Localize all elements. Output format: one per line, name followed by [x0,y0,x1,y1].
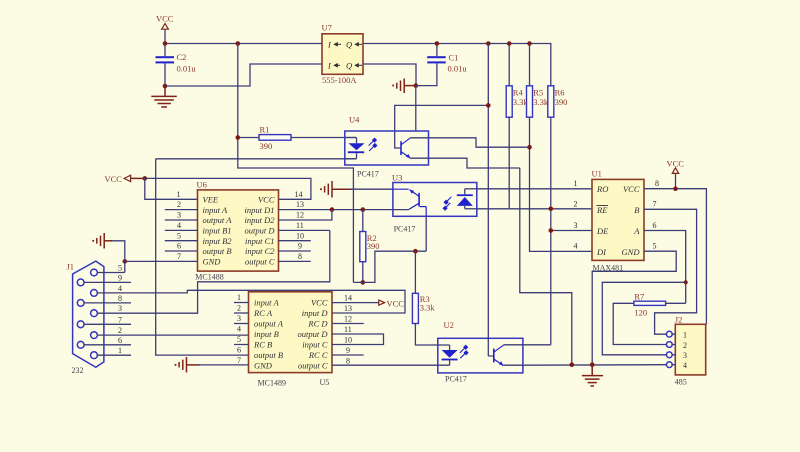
svg-text:12: 12 [296,211,304,220]
node rail-U2base column [486,41,491,46]
wire U6 pin11 stub joining riser [279,229,330,231]
svg-text:4: 4 [177,221,181,230]
node R5/U4-collector junction [527,145,532,150]
pin numbers U5 right [344,294,352,366]
svg-text:B: B [634,205,639,215]
wire U1 pin5 GND loop to bottom ground [592,251,676,365]
light arrows U3 [443,197,451,210]
svg-text:input D: input D [302,308,329,318]
node rail-C1 junction [435,41,440,46]
svg-text:RO: RO [596,184,608,194]
wire column x238: rail to R1 to corner right [238,44,354,283]
svg-text:input A: input A [203,205,228,215]
svg-text:2: 2 [118,326,122,335]
svg-text:7: 7 [118,315,122,324]
svg-text:7: 7 [177,252,181,261]
svg-text:input C1: input C1 [245,236,275,246]
svg-text:4: 4 [118,284,122,293]
wire U3 to U1 RE line [477,208,592,210]
svg-text:6: 6 [237,346,241,355]
phototransistor inside U2 [488,345,503,365]
svg-text:232: 232 [72,366,84,375]
ic U6 MC1488 [195,180,278,282]
node pin13/pin12 junction [330,207,335,212]
wire U1 pin7 B to J2 pin1 [644,209,697,334]
svg-text:6: 6 [118,336,122,345]
svg-text:output D: output D [298,329,329,339]
svg-text:3: 3 [118,304,122,313]
svg-text:input A: input A [254,298,279,308]
wire U6 pin8 stub [279,260,311,262]
wire U5 pin8 to U2 LED cathode [332,364,438,366]
svg-text:U2: U2 [444,320,454,330]
svg-text:9: 9 [346,346,350,355]
svg-text:2: 2 [177,200,181,209]
svg-text:8: 8 [118,294,122,303]
svg-text:5: 5 [118,264,122,273]
resistor R2 [360,210,380,283]
wire U7 Q- out right then down [363,64,416,86]
wire x520 column down to gnd rail [520,168,572,365]
ic U1 MAX481 [592,169,645,273]
svg-text:3: 3 [177,211,181,220]
svg-text:MC1489: MC1489 [258,379,286,388]
wire J1 pin4 to U5 pin13 hook [97,290,405,313]
wire R7 right [666,302,686,304]
capacitor C2 [156,52,197,74]
svg-text:4: 4 [574,242,578,251]
svg-text:6: 6 [653,221,657,230]
ic U5 MC1489 [249,292,333,388]
ground (bottom right) [582,365,603,386]
wire J1 pin5 stub [97,272,124,274]
J1 pin circles right column (5,4,3,2,1) [91,269,98,359]
optocoupler U2 PC417 [438,320,523,384]
svg-text:DI: DI [596,247,607,257]
svg-text:VCC: VCC [623,184,640,194]
connector J2 485 [675,315,706,387]
svg-text:13: 13 [296,200,304,209]
svg-text:1: 1 [118,346,122,355]
svg-text:DE: DE [596,226,609,236]
svg-text:1: 1 [574,179,578,188]
node rail-VCC junction [163,41,168,46]
svg-text:PC417: PC417 [445,375,467,384]
wire U1 pin6 A down to R7 right [644,231,686,304]
svg-text:C2: C2 [177,52,187,62]
wire C2 bottom to node [164,63,166,86]
svg-text:R4: R4 [513,88,524,98]
resistor R7 [634,292,666,318]
svg-text:output B: output B [254,350,283,360]
svg-text:9: 9 [298,242,302,251]
svg-text:6: 6 [177,242,181,251]
resistor R3 [412,251,437,345]
svg-text:input D2: input D2 [245,215,276,225]
ground (sideways) at 555 [392,79,416,94]
svg-text:390: 390 [367,241,380,251]
svg-text:5: 5 [653,242,657,251]
svg-text:GND: GND [203,257,222,267]
svg-text:output C: output C [245,257,275,267]
svg-text:J1: J1 [67,262,75,272]
wire R1 left to column [238,137,259,139]
svg-text:10: 10 [296,231,304,240]
wire U5 GND pin7 to ground [198,364,249,366]
svg-text:9: 9 [118,274,122,283]
node DI/R3 junction [413,249,418,254]
wire U3 to U1 RO line [477,188,592,190]
wire J1 pin3 to riser [97,230,329,313]
light arrows U4 [369,138,377,151]
wire J1 pin2 to U5 pin4 [97,334,248,336]
svg-text:R1: R1 [260,125,270,135]
svg-text:A: A [633,226,640,236]
phototransistor inside U3 (left) [393,189,426,216]
wire U5 pin11-pin10 hook [332,334,384,345]
svg-text:input B: input B [254,329,279,339]
wire U6 pin12 riser [279,210,332,220]
svg-text:RC C: RC C [308,350,328,360]
svg-text:10: 10 [344,336,352,345]
svg-text:8: 8 [346,357,350,366]
wire J1 pin6 stub [84,344,131,346]
svg-text:input B1: input B1 [203,226,232,236]
svg-text:8: 8 [298,252,302,261]
svg-text:4: 4 [237,325,241,334]
wire J1 pin1 stub [97,354,131,356]
svg-text:1: 1 [177,190,181,199]
svg-text:3: 3 [683,351,687,360]
svg-text:R7: R7 [634,292,644,302]
wire x156 column down to U5 pin6 [156,159,249,355]
wire U2 collector to R6 column [503,344,550,346]
svg-text:2: 2 [237,304,241,313]
LED inside U4 [345,138,357,144]
svg-text:VCC: VCC [156,14,174,24]
wire C1 bottom to node [416,63,437,85]
wire U2-base column from rail [487,44,489,357]
svg-text:14: 14 [295,190,303,199]
optocoupler U4 PC417 [345,115,429,179]
wire R4 bottom column to RE line [508,117,510,209]
wire R2 bottom rung to DI riser [353,251,426,282]
svg-text:7: 7 [653,200,657,209]
node gnd rail / x520 branch [570,362,575,367]
wire U7 Q+ to top rail right [363,44,551,87]
svg-text:1: 1 [683,330,687,339]
wire Q-net drop onto U4 box top [415,86,417,131]
svg-text:U4: U4 [349,115,360,125]
svg-text:RC B: RC B [253,340,272,350]
svg-text:13: 13 [344,304,352,313]
wire U5 pin1 stub [234,302,249,304]
wire R1 right to U4 LED anode [291,137,357,139]
optocoupler U3 PC417 [392,173,477,234]
svg-text:11: 11 [296,221,304,230]
svg-text:5: 5 [237,335,241,344]
node column/U4-base junction [486,103,491,108]
node A branch junction [684,280,688,284]
svg-text:RC A: RC A [253,308,273,318]
wire J1 pin8 stub [84,302,131,304]
svg-text:3.3k: 3.3k [533,97,549,107]
node R2 bottom junction [361,280,366,285]
node Q-/C1/gnd junction [414,83,419,88]
wire U6 pin3 stub [165,219,198,221]
wire DE stub U1 [551,230,592,232]
svg-text:output B: output B [203,246,232,256]
ground (sideways) at U6 pin14 area [320,181,352,198]
node R1 column junction [236,135,241,140]
wire U2 emitter / ground rail to J2 pin4 [503,364,666,367]
wire U6 pin9 stub [279,250,311,252]
svg-text:11: 11 [344,325,352,334]
node rail-R1 column junction [236,41,241,46]
power VCC (left, at U6) [105,174,145,184]
svg-text:RC D: RC D [307,319,328,329]
wire U1 pin8 VCC to J2 corner [644,189,706,325]
svg-text:555-100A: 555-100A [322,75,357,85]
wire C2 node right then up to U7 pin I- lower [165,64,322,86]
wire U5 pin2 stub [234,312,249,314]
pin numbers U1 left [574,179,578,251]
pin numbers U6 left [177,190,182,261]
svg-text:PC417: PC417 [394,225,416,234]
svg-text:input C2: input C2 [245,246,275,256]
svg-text:Q: Q [346,61,352,71]
svg-text:GND: GND [254,361,273,371]
svg-text:R5: R5 [533,88,543,98]
svg-text:U5: U5 [320,378,330,387]
pin numbers U1 right [653,179,660,251]
node VCC-left junction [143,176,148,181]
svg-text:VCC: VCC [258,195,275,205]
wire U5 pin12 stub [332,323,364,325]
wire U4 collector to R5 junction [411,138,530,147]
J1 pin number labels [118,264,122,356]
wire R6 bottom column to U2 collector [550,117,552,345]
svg-text:U1: U1 [592,169,602,179]
wire U3 base down to DI line [425,216,427,251]
wire VCC right to U6 pin14 loop [145,178,311,199]
svg-text:J2: J2 [675,315,683,325]
svg-text:C1: C1 [449,53,459,63]
svg-text:2: 2 [574,200,578,209]
wire U6 pin10 stub [279,240,311,242]
svg-text:5: 5 [177,231,181,240]
power VCC (top left) [156,14,174,44]
node rail-R4 [507,41,512,46]
svg-text:PC417: PC417 [357,170,379,179]
svg-text:3: 3 [237,314,241,323]
svg-text:RE: RE [596,205,608,215]
svg-text:3: 3 [574,221,578,230]
svg-text:1: 1 [237,293,241,302]
svg-text:output C: output C [298,361,328,371]
wire U6 pin2 stub [165,209,198,211]
svg-text:VCC: VCC [387,299,405,309]
svg-text:14: 14 [344,294,352,303]
svg-text:VCC: VCC [105,174,123,184]
wire J2 pin stubs [672,334,675,365]
wire top rail left (VCC to U7 pin I-) [165,43,322,45]
svg-text:input D1: input D1 [245,205,275,215]
wire junction up to ground stem and down to J1 pin5 [110,241,125,273]
LED inside U3 (right, pointing up) [457,194,473,196]
node RE/R6-column junction [549,207,554,212]
LED inside U2 [438,345,450,350]
svg-text:485: 485 [675,378,687,387]
wire C2 top [164,44,166,57]
wire R5 bottom column [530,117,593,251]
resistor R6 [548,86,568,117]
node rail-R5 [527,41,532,46]
light arrows U2 [460,345,468,358]
svg-text:U7: U7 [322,23,332,33]
wire U6 pin6 stub [165,250,198,252]
svg-text:3.3k: 3.3k [420,303,436,313]
svg-text:GND: GND [622,247,641,257]
node C2 bottom junction [163,84,168,89]
node U6 GND / J1 pin5 junction [123,259,128,264]
node DE/R6-column junction [549,228,554,233]
svg-text:input B2: input B2 [203,236,233,246]
svg-text:VCC: VCC [311,298,328,308]
wire J1 pin9 stub [84,281,131,283]
svg-text:120: 120 [634,308,647,318]
power VCC arrow at U5 pin14 [332,299,404,309]
wire VCC stem [164,29,166,43]
J2 pin circles [666,331,672,367]
svg-text:4: 4 [683,361,687,370]
svg-text:output A: output A [254,319,284,329]
wire U6 pin7 GND to left ground [125,260,198,262]
wire U6 pin5 stub [165,240,198,242]
svg-text:8: 8 [655,179,659,188]
resistor R4 [506,44,528,118]
wire U6 pin4 stub [165,229,198,231]
svg-text:12: 12 [344,315,352,324]
J1 pin circles left column (9,8,7,6) [77,279,84,348]
wire VCC to U6 pin1 VEE [145,178,198,199]
svg-text:U3: U3 [392,173,402,183]
wire ground to U3 collector pin [350,188,393,190]
svg-text:VEE: VEE [203,195,219,205]
svg-text:Q: Q [346,40,352,50]
ic U7 555-100A [322,23,364,86]
ground below C2 [151,86,177,107]
wire U4 emitter step to x520 column [411,158,520,168]
svg-text:output D: output D [245,226,276,236]
node gnd rail / U1 gnd [590,362,595,367]
phototransistor inside U4 [400,138,410,158]
connector J1 DB9 232 [67,261,104,375]
wire U5 pin5 stub [234,344,249,346]
node pin8 junction [673,186,678,191]
svg-text:output A: output A [203,215,233,225]
node pin13/R2 junction [361,207,366,212]
wire U4 cathode long line to x156 column [156,158,357,160]
svg-text:390: 390 [555,97,568,107]
wire U4 base feed from column [395,105,489,148]
ground (sideways) at U5 GND [175,357,200,373]
svg-text:U6: U6 [197,180,207,190]
ground (sideways) left of U6 [92,233,112,249]
power VCC at U1 pin8 [667,159,685,189]
wire A branch to J2 pin3 [602,282,685,355]
wire R7 left to J2 pin2 [613,303,666,344]
svg-text:0.01u: 0.01u [177,64,197,74]
svg-text:390: 390 [260,141,273,151]
svg-text:7: 7 [237,356,241,365]
capacitor C1 [427,53,467,74]
wire U5 pin3 stub [234,323,249,325]
resistor R1 [259,125,291,152]
svg-text:R6: R6 [555,88,565,98]
svg-text:2: 2 [683,341,687,350]
wire C1 top [436,44,438,57]
wire U5 pin9 stub [332,354,364,356]
wire J1 pin7 stub [84,323,131,325]
pin numbers U6 right [295,190,305,261]
resistor R5 [527,44,549,118]
svg-text:0.01u: 0.01u [448,64,468,74]
svg-text:MC1488: MC1488 [195,273,223,282]
wire U3 emitter to U6 pin13 line [279,209,410,211]
svg-text:input C: input C [302,340,328,350]
pin numbers U5 left [237,293,241,365]
